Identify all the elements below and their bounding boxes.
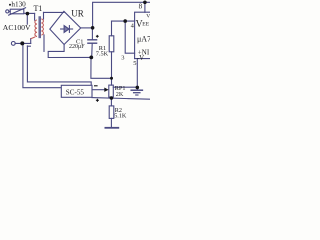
svg-text:EE: EE	[142, 22, 149, 28]
svg-text:5.1K: 5.1K	[114, 113, 127, 120]
svg-text:220μF: 220μF	[69, 44, 85, 50]
svg-text:SC-55: SC-55	[66, 89, 85, 97]
svg-text:-V: -V	[137, 54, 144, 62]
svg-text:3: 3	[121, 54, 124, 61]
svg-text:2K: 2K	[116, 91, 124, 98]
svg-text:μA7: μA7	[137, 34, 150, 43]
svg-text:UR: UR	[71, 9, 84, 19]
svg-text:4: 4	[131, 22, 135, 29]
svg-text:T1: T1	[34, 4, 43, 13]
svg-text:8: 8	[139, 3, 143, 11]
svg-text:AC100V: AC100V	[3, 23, 31, 32]
svg-text:V+: V+	[146, 14, 150, 20]
svg-text:h130: h130	[11, 1, 26, 9]
svg-text:7.5K: 7.5K	[96, 51, 109, 58]
